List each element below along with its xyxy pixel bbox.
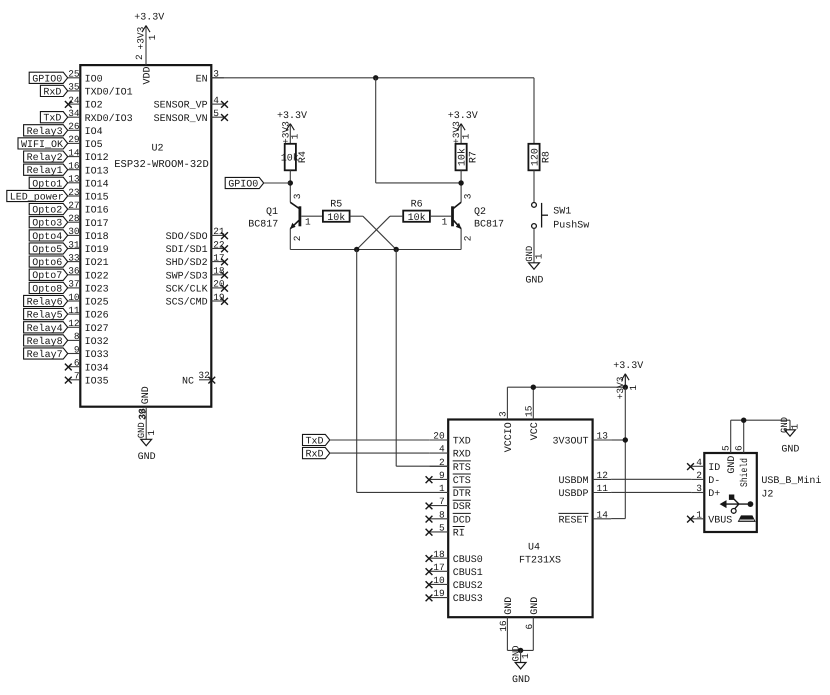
svg-text:SCK/CLK: SCK/CLK [166,284,208,296]
svg-text:CBUS0: CBUS0 [453,555,483,566]
svg-text:IO34: IO34 [85,363,109,374]
resistor R8 120 [528,144,552,171]
svg-text:GND: GND [781,445,799,456]
svg-text:37: 37 [68,279,79,290]
global label Opto6 [29,256,67,269]
svg-text:1: 1 [147,34,158,40]
svg-text:VDD: VDD [142,66,153,84]
U4 pin 20 TXD [430,431,471,448]
svg-text:Opto5: Opto5 [32,245,62,256]
global label Relay8 [24,335,68,348]
global label Relay3 [24,125,68,138]
global label Opto8 [29,282,67,295]
svg-text:Relay3: Relay3 [27,126,63,138]
svg-text:25: 25 [68,69,80,80]
svg-text:10: 10 [433,575,445,586]
svg-text:35: 35 [68,82,80,93]
svg-text:1: 1 [628,385,639,391]
U4 reference and value labels [519,543,561,567]
svg-text:11: 11 [597,483,609,494]
ground GND (U2) [136,407,157,463]
svg-text:IO2: IO2 [85,101,103,112]
svg-text:16: 16 [498,620,509,632]
svg-text:Opto4: Opto4 [32,232,62,243]
svg-text:SENSOR_VP: SENSOR_VP [154,101,208,112]
junction RTS riser / emitter rail [394,247,399,252]
svg-text:3V3OUT: 3V3OUT [552,437,588,448]
U4 pin 4 RXD [430,444,471,461]
svg-text:9: 9 [74,344,80,355]
power +3.3V (U2 VDD) [134,12,164,65]
U2 pin 29 IO5 [68,134,103,151]
U2 pin 28 IO17 [68,213,109,230]
svg-text:1: 1 [520,653,531,659]
svg-text:Relay8: Relay8 [27,336,63,348]
svg-text:2: 2 [292,235,303,241]
wire USBDM to J2 D- [611,478,691,480]
transistor Q2 BC817 [442,193,504,249]
U2 pin 37 IO23 [68,279,109,296]
svg-text:IO5: IO5 [85,140,103,151]
svg-text:IO12: IO12 [85,153,109,164]
wire R5 to RTS riser (diagonal) [350,216,397,249]
svg-text:RXD: RXD [453,450,471,461]
svg-text:22: 22 [213,239,225,250]
svg-text:Relay1: Relay1 [27,165,63,177]
svg-text:10k: 10k [408,212,426,224]
svg-text:8: 8 [439,509,445,520]
U2 pin 36 IO22 [68,266,109,283]
svg-text:24: 24 [68,95,80,106]
svg-text:39: 39 [138,408,149,420]
svg-text:30: 30 [68,226,80,237]
U4 pin 3 VCCIO [497,387,515,452]
svg-text:USB_B_Mini: USB_B_Mini [761,475,821,487]
wire VCCIO/VCC 3.3V rail [507,386,625,388]
global label RxD [40,85,67,98]
svg-text:+3V3: +3V3 [280,121,291,144]
svg-text:18: 18 [213,266,225,277]
svg-text:RxD: RxD [306,450,324,461]
svg-text:GPIO0: GPIO0 [228,180,258,191]
svg-text:SCS/CMD: SCS/CMD [166,297,208,309]
svg-text:SENSOR_VN: SENSOR_VN [154,114,208,125]
svg-text:PushSw: PushSw [553,220,589,232]
svg-text:Relay7: Relay7 [27,349,63,361]
power +3.3V (U4) [613,361,643,399]
U2 pin 12 IO27 [68,318,109,335]
svg-text:DSR: DSR [453,502,471,513]
svg-text:Q1: Q1 [266,207,278,218]
U4 pin 14 RESET [558,509,611,526]
svg-text:Opto6: Opto6 [32,258,62,269]
svg-text:RTS: RTS [453,463,471,474]
U2 pin 13 IO14 [68,174,109,191]
svg-text:6: 6 [524,624,535,630]
global label Opto2 [29,204,67,217]
svg-text:IO23: IO23 [85,285,109,296]
wire Q1 base to R5 [301,215,323,217]
wire R8 to SW1 [533,170,535,202]
J2 pin 4 ID [687,457,720,474]
svg-text:IO4: IO4 [85,127,103,138]
U2 pin 22 SDI/SD1 [166,239,228,256]
resistor R7 10k [456,144,480,171]
svg-text:IO21: IO21 [85,258,109,269]
global label Relay7 [24,348,68,361]
svg-text:6: 6 [74,358,80,369]
U2 pin 30 IO18 [68,226,109,243]
svg-text:+3V3: +3V3 [135,26,146,49]
svg-text:IO35: IO35 [85,376,109,387]
U2 pin 4 SENSOR_VP [154,95,228,112]
svg-text:12: 12 [597,470,609,481]
svg-text:14: 14 [68,147,80,158]
junction EN / Q2 collector branch [373,75,378,80]
junction VCC / 3.3V rail [531,385,536,390]
J2 pin 5 GND [721,420,739,473]
transistor Q1 BC817 [248,193,311,249]
svg-text:10k: 10k [457,148,469,166]
junction 3.3V rail / riser [623,385,628,390]
svg-text:GND: GND [727,456,738,474]
U4 pin 17 CBUS1 [426,562,483,579]
wire U4 RESET to riser [611,518,625,520]
U2 pins 38 39 GND [137,386,152,420]
wire U4 3V3OUT to riser [611,439,625,441]
svg-text:SDI/SD1: SDI/SD1 [166,244,208,256]
svg-text:28: 28 [68,213,80,224]
svg-text:CBUS3: CBUS3 [453,594,483,605]
svg-text:+3.3V: +3.3V [134,12,164,23]
U2 pin 11 IO26 [68,305,109,322]
wire R6 to Q2 base [430,215,451,217]
svg-text:18: 18 [433,549,445,560]
connector J2 USB_B_Mini [687,420,821,532]
svg-text:IO27: IO27 [85,324,109,335]
wire RTS riser [396,250,448,467]
svg-text:12: 12 [68,318,80,329]
wire R6 to DTR riser (diagonal) [357,216,404,249]
ground GND (SW1) [524,246,545,287]
svg-text:7: 7 [74,371,80,382]
svg-text:13: 13 [68,174,80,185]
svg-text:10k: 10k [281,153,299,165]
svg-text:4: 4 [439,444,445,455]
wire TxD to U4 TXD [330,439,430,441]
wire R7 bottom to Q2 collector [460,170,462,202]
global label RxD (U4) [303,448,330,461]
svg-text:+3.3V: +3.3V [448,111,478,122]
svg-text:BC817: BC817 [474,220,504,231]
svg-text:IO19: IO19 [85,245,109,256]
U4 pin 9 CTS [426,470,471,487]
svg-text:ESP32-WROOM-32D: ESP32-WROOM-32D [114,159,209,171]
svg-text:GND: GND [504,597,515,615]
svg-text:IO15: IO15 [85,193,109,204]
svg-text:16: 16 [68,161,80,172]
svg-text:2: 2 [696,470,702,481]
svg-text:IO25: IO25 [85,298,109,309]
svg-text:RESET: RESET [558,515,588,526]
U2 pin 16 IO13 [68,161,109,178]
svg-text:32: 32 [198,370,210,381]
global label TxD (U4) [303,434,330,447]
U4 pin 6 GND [524,597,541,651]
svg-text:13: 13 [597,431,609,442]
svg-text:IO26: IO26 [85,311,109,322]
U2 pin 14 IO12 [68,147,109,164]
J2 pin 2 D- [691,470,720,487]
global label GPIO0 [29,72,67,85]
U4 pin 18 CBUS0 [426,549,483,566]
U4 pin 13 3V3OUT [552,431,611,448]
wire R4 bottom to Q1 collector [289,170,291,202]
junction EN branch / R7 / Q2 collector [458,180,463,185]
junction DTR riser / emitter rail [354,247,359,252]
power +3.3V (R4) [277,111,307,144]
svg-text:CBUS2: CBUS2 [453,581,483,592]
svg-text:1: 1 [146,430,157,436]
svg-text:SW1: SW1 [553,207,571,218]
U4 pin 5 RI [426,523,465,540]
svg-text:2: 2 [439,457,445,468]
svg-text:10k: 10k [327,212,345,224]
wire emitter rail Q1-Q2 [290,249,461,251]
wire SW1 to GND [533,229,535,263]
U2 pin 17 SHD/SD2 [166,252,228,269]
svg-text:NC: NC [182,376,194,387]
svg-text:TXD0/IO1: TXD0/IO1 [85,87,133,99]
resistor R6 10k [403,200,430,225]
svg-text:Relay6: Relay6 [27,297,63,309]
svg-text:9: 9 [439,470,445,481]
U2 pin 6 IO34 [65,358,109,375]
U2 pin 31 IO19 [68,239,109,256]
svg-text:IO33: IO33 [85,350,109,361]
global label TxD [40,112,67,125]
U2 pin 34 RXD0/IO3 [68,108,133,125]
svg-text:29: 29 [68,134,80,145]
J2 reference and value labels [761,475,821,501]
U4 pin 16 GND [498,597,515,651]
wire RxD to U4 RXD [330,452,430,454]
U2 pin 35 TXD0/IO1 [68,82,133,99]
svg-text:26: 26 [68,121,80,132]
svg-text:8: 8 [74,331,80,342]
svg-text:GND: GND [138,452,156,463]
J2 pin 3 D+ [691,483,720,500]
svg-text:1: 1 [534,253,545,259]
svg-text:D+: D+ [708,489,720,500]
svg-text:19: 19 [433,588,445,599]
svg-text:IO18: IO18 [85,232,109,243]
svg-text:CTS: CTS [453,476,471,487]
U2 pin 21 SDO/SDO [166,226,228,243]
global label Relay5 [24,309,68,322]
resistor R4 10k [281,144,309,171]
svg-text:2: 2 [462,235,473,241]
svg-text:GPIO0: GPIO0 [32,74,62,85]
svg-text:1: 1 [290,133,301,139]
svg-text:+3V3: +3V3 [615,376,626,399]
svg-text:USBDP: USBDP [558,489,588,500]
svg-text:GND: GND [141,386,152,404]
svg-text:USBDM: USBDM [558,476,588,487]
U2 pin 10 IO25 [68,292,109,309]
svg-text:4: 4 [213,95,219,106]
svg-text:SDO/SDO: SDO/SDO [166,231,208,243]
svg-text:34: 34 [68,108,80,119]
svg-text:IO22: IO22 [85,271,109,282]
svg-text:11: 11 [68,305,80,316]
ground GND (U4) [511,645,532,686]
junction GPIO0 / R4 / Q1 collector [288,180,293,185]
svg-text:31: 31 [68,239,80,250]
svg-text:Relay4: Relay4 [27,323,63,335]
svg-text:3: 3 [292,193,303,199]
wire EN branch down to Q2 collector [376,78,461,183]
svg-text:RI: RI [453,529,465,540]
svg-text:17: 17 [213,252,224,263]
wire 3.3V riser [624,387,626,518]
svg-text:5: 5 [439,523,445,534]
svg-text:33: 33 [68,252,80,263]
svg-text:IO14: IO14 [85,179,109,190]
U2 pin 5 SENSOR_VN [154,108,228,125]
junction 3V3OUT / riser [623,437,628,442]
power +3.3V (R7) [448,111,478,144]
U2 pin 3 EN [196,69,224,86]
U4 pin 19 CBUS3 [426,588,483,605]
U4 pin 10 CBUS2 [426,575,483,592]
svg-text:VCCIO: VCCIO [504,422,515,452]
wire U4 GND rail [507,649,533,651]
wire USBDP to J2 D+ [611,491,691,493]
global label WIFI_OK [18,138,68,151]
svg-text:U2: U2 [151,144,163,155]
svg-text:IO0: IO0 [85,74,103,85]
svg-text:IO16: IO16 [85,206,109,217]
svg-text:1: 1 [305,217,311,228]
U2 pin 19 SCS/CMD [166,292,228,309]
global label GPIO0 (Q1 collector) [225,177,290,190]
svg-text:TxD: TxD [306,437,324,448]
svg-text:WIFI_OK: WIFI_OK [21,140,63,151]
U2 pin 32 NC [182,370,215,387]
IC U2 ESP32-WROOM-32D [65,54,228,420]
global label Opto4 [29,230,67,243]
U2 pin 24 IO2 [65,95,103,112]
U2 pin 2 VDD [134,54,153,85]
U2 pin 23 IO15 [68,187,109,204]
svg-text:23: 23 [68,187,80,198]
switch SW1 PushSw [532,203,590,232]
U2 pin 26 IO4 [68,121,103,138]
svg-text:1: 1 [460,133,471,139]
J2 USB logo [720,495,756,522]
svg-text:CBUS1: CBUS1 [453,568,483,579]
global label Opto3 [29,217,67,230]
svg-text:J2: J2 [761,490,773,501]
svg-text:ID: ID [708,463,720,474]
svg-text:TxD: TxD [43,114,61,125]
wire J2 GND/Shield rail [731,419,790,421]
junction J2 Shield / GND rail [741,418,746,423]
svg-text:DTR: DTR [453,489,471,500]
svg-text:1: 1 [439,483,445,494]
global label Relay6 [24,295,68,308]
svg-text:27: 27 [68,200,79,211]
svg-text:Opto2: Opto2 [32,206,62,217]
svg-text:20: 20 [213,279,225,290]
svg-text:5: 5 [721,445,732,451]
svg-text:FT231XS: FT231XS [519,555,561,566]
global label LED_power [7,190,68,203]
svg-text:Relay5: Relay5 [27,310,63,322]
svg-text:+3.3V: +3.3V [613,361,643,372]
svg-text:IO32: IO32 [85,337,109,348]
svg-text:1: 1 [696,509,702,520]
svg-text:1: 1 [442,217,448,228]
global label Relay2 [24,151,68,164]
global label Opto1 [29,177,67,190]
svg-text:1: 1 [789,424,800,430]
svg-text:3: 3 [696,483,702,494]
svg-text:17: 17 [433,562,444,573]
svg-text:TXD: TXD [453,437,471,448]
U2 pin 27 IO16 [68,200,109,217]
svg-text:20: 20 [433,431,445,442]
U4 pin 2 RTS [430,457,471,474]
U2 pin 25 IO0 [68,69,103,86]
svg-text:19: 19 [213,292,225,303]
U2 pin 20 SCK/CLK [166,279,228,296]
svg-text:Q2: Q2 [474,207,486,218]
svg-text:3: 3 [462,193,473,199]
U4 pin 15 VCC [523,387,541,440]
svg-text:14: 14 [597,509,609,520]
svg-text:U4: U4 [528,543,540,554]
U2 pin 18 SWP/SD3 [166,266,228,283]
wire EN from U2 pin3 to R8 [211,78,534,144]
svg-text:SWP/SD3: SWP/SD3 [166,270,208,282]
svg-text:10: 10 [68,292,80,303]
U2 pin 33 IO21 [68,252,109,269]
global label Opto7 [29,269,67,282]
svg-text:4: 4 [696,457,702,468]
svg-text:EN: EN [196,74,208,85]
svg-text:SHD/SD2: SHD/SD2 [166,257,208,269]
svg-text:VCC: VCC [530,422,541,440]
svg-text:6: 6 [734,445,745,451]
svg-text:Opto3: Opto3 [32,219,62,230]
svg-text:LED_power: LED_power [10,193,64,204]
svg-text:+3.3V: +3.3V [277,111,307,122]
U4 pin 7 DSR [426,496,471,513]
svg-text:GND: GND [512,675,530,686]
IC U4 FT231XS [426,387,611,650]
svg-text:Relay2: Relay2 [27,152,63,164]
J2 pin 6 Shield [734,420,752,487]
svg-text:RxD: RxD [43,87,61,98]
svg-text:DCD: DCD [453,515,471,526]
junction U4 GND rail [518,648,523,653]
svg-text:+3V3: +3V3 [451,121,462,144]
resistor R5 10k [323,200,350,225]
svg-text:21: 21 [213,226,225,237]
svg-text:120: 120 [530,148,541,166]
